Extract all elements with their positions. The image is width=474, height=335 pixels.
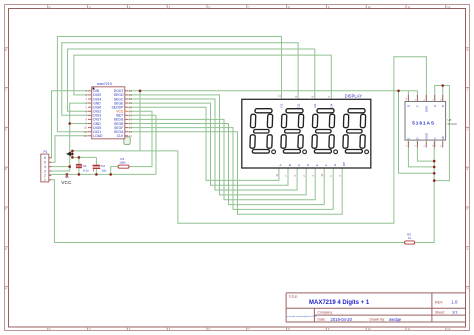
svg-text:8: 8 xyxy=(311,96,315,98)
svg-text:5: 5 xyxy=(329,175,333,177)
svg-text:1/1: 1/1 xyxy=(452,310,458,315)
svg-text:Drawn By:: Drawn By: xyxy=(370,318,386,322)
svg-text:D: D xyxy=(467,127,469,131)
wire net VCC flag stub xyxy=(71,151,73,158)
wire branch to 5161AS column xyxy=(399,91,435,174)
svg-text:F: F xyxy=(5,207,7,211)
svg-text:E: E xyxy=(5,167,7,171)
digit glyph 4 xyxy=(343,109,369,154)
svg-text:MAX7219 4 Digits + 1: MAX7219 4 Digits + 1 xyxy=(309,300,370,306)
connector P1 xyxy=(41,150,52,182)
svg-text:REV:: REV: xyxy=(435,300,443,304)
svg-text:8: 8 xyxy=(86,118,88,122)
svg-text:10: 10 xyxy=(320,173,324,177)
wire 5161AS pin F stub wire xyxy=(416,91,418,102)
svg-text:CLK: CLK xyxy=(117,134,124,138)
svg-text:11: 11 xyxy=(275,173,279,176)
svg-text:G: G xyxy=(407,105,411,107)
svg-text:C: C xyxy=(5,88,7,92)
wire net SEG to 5161AS G/F xyxy=(128,90,417,92)
svg-text:D3: D3 xyxy=(313,103,317,107)
display U8 5161AS xyxy=(405,95,457,148)
svg-text:G: G xyxy=(467,247,469,251)
wire net GND branch to U1 GND pin9 xyxy=(70,123,88,125)
svg-text:13: 13 xyxy=(129,134,132,138)
wire C1 top lead xyxy=(78,157,80,164)
svg-text:2019-04-20: 2019-04-20 xyxy=(331,317,353,322)
svg-text:100k: 100k xyxy=(119,161,126,165)
wire net DIG1 to display D1 xyxy=(57,37,281,132)
svg-text:LOAD: LOAD xyxy=(93,134,103,138)
wire vertical from SEG net down xyxy=(139,91,141,151)
svg-text:wedge: wedge xyxy=(389,317,402,322)
svg-text:DISPLAY: DISPLAY xyxy=(345,94,363,99)
wire net VCC horizontal xyxy=(72,150,177,152)
svg-text:C2: C2 xyxy=(101,164,105,168)
wire 5161AS pin G stub wire xyxy=(407,91,409,102)
svg-text:2: 2 xyxy=(44,174,46,178)
svg-text:D: D xyxy=(5,127,7,131)
VCC net flag arrow xyxy=(66,151,73,156)
svg-text:C1: C1 xyxy=(83,164,87,168)
wire net GND (P1.1 to R2) xyxy=(49,180,405,243)
svg-text:D1: D1 xyxy=(280,103,284,107)
wire 5161AS pin D branch xyxy=(417,141,434,161)
wire net DIG3 to display D2 xyxy=(62,43,298,116)
svg-text:GND: GND xyxy=(425,133,429,139)
svg-text:F: F xyxy=(324,164,328,166)
svg-text:P1: P1 xyxy=(44,150,48,154)
svg-text:E: E xyxy=(467,167,469,171)
svg-text:9: 9 xyxy=(294,96,298,98)
digit glyph 1 xyxy=(250,109,276,154)
wire net SEGB (U1 to display) xyxy=(128,124,324,205)
svg-text:12: 12 xyxy=(277,94,281,98)
svg-text:D4: D4 xyxy=(330,103,334,107)
svg-text:A: A xyxy=(279,164,283,166)
svg-text:1k: 1k xyxy=(408,236,412,240)
svg-text:D2: D2 xyxy=(296,103,300,107)
svg-text:4: 4 xyxy=(44,165,46,169)
svg-text:GND: GND xyxy=(425,106,429,112)
svg-text:10: 10 xyxy=(84,126,87,130)
svg-text:1.0: 1.0 xyxy=(451,300,458,305)
wire net ISET from U1 pin18 to rail xyxy=(128,115,156,174)
wire net VCC to 5161AS common xyxy=(178,57,427,224)
wire net SEGG (U1 to display) xyxy=(128,119,315,199)
wire net VCC top rail xyxy=(72,156,96,158)
svg-text:B: B xyxy=(441,105,445,107)
svg-text:5161AS: 5161AS xyxy=(412,121,435,127)
svg-text:E: E xyxy=(315,164,319,166)
IC U1 max7219 xyxy=(84,82,132,139)
svg-text:F: F xyxy=(416,105,420,107)
wire C2 top lead xyxy=(95,157,97,165)
wire R1 left lead xyxy=(111,167,118,175)
svg-text:1: 1 xyxy=(311,175,315,177)
resistor R1 100k xyxy=(118,157,129,168)
svg-text:easyeda.com/wedge/max7219: easyeda.com/wedge/max7219 xyxy=(287,316,317,318)
capacitor C1 0.1u xyxy=(76,164,89,172)
svg-text:B: B xyxy=(5,48,7,52)
wire net GND vertical (U1 GND pin4 to P1.3) xyxy=(49,103,88,171)
svg-text:6: 6 xyxy=(44,156,46,160)
svg-text:3: 3 xyxy=(86,97,88,101)
svg-text:DP: DP xyxy=(342,162,346,166)
svg-text:7: 7 xyxy=(284,175,288,177)
svg-text:DP: DP xyxy=(441,135,445,139)
wire net DIN (P1.6 to U1 DIN) xyxy=(49,91,88,158)
wire C1 bottom lead xyxy=(78,167,80,174)
capacitor C2 10u xyxy=(93,164,107,172)
wire 5161AS pin E branch xyxy=(408,141,434,167)
wire 5161AS A-B loop xyxy=(434,86,449,181)
wire C2 bottom lead xyxy=(95,168,97,174)
wire net VCC bottom rail xyxy=(49,173,156,175)
svg-text:10u: 10u xyxy=(101,169,106,173)
svg-text:A: A xyxy=(433,105,437,107)
wire net DIG2 to display D3 xyxy=(68,49,315,111)
svg-text:max7219: max7219 xyxy=(97,82,112,86)
digit glyph 3 xyxy=(312,109,338,154)
wire net DIG0 to display D4 xyxy=(74,55,331,99)
svg-text:Sheet:: Sheet: xyxy=(435,310,445,314)
svg-text:C: C xyxy=(433,137,437,139)
svg-text:D: D xyxy=(416,137,420,139)
svg-text:G: G xyxy=(5,247,7,251)
wire net SEGC (U1 to display) xyxy=(128,99,297,190)
svg-text:5161AS: 5161AS xyxy=(448,122,458,126)
svg-text:0.1u: 0.1u xyxy=(83,169,89,173)
svg-text:Company:: Company: xyxy=(318,310,334,314)
net port flag on CLK pin xyxy=(124,137,130,145)
wire net SEGDP (U1 to display) xyxy=(128,107,279,180)
svg-text:B: B xyxy=(288,164,292,166)
wire 5161AS pin B riser xyxy=(442,86,444,102)
svg-text:U8: U8 xyxy=(448,118,452,122)
display DS1 4-digit 7-segment xyxy=(242,94,371,177)
svg-text:E: E xyxy=(407,138,411,140)
junction dots xyxy=(66,84,444,182)
svg-text:TITLE:: TITLE: xyxy=(289,295,299,299)
svg-text:H: H xyxy=(467,287,469,291)
VCC power flag xyxy=(61,174,72,185)
svg-text:F: F xyxy=(467,207,469,211)
wire net VCC from U1 pin19 to R1 xyxy=(128,111,152,166)
wire net SEGA (U1 to display) xyxy=(128,132,342,215)
resistor R2 1k xyxy=(405,233,415,244)
svg-text:VCC: VCC xyxy=(61,180,72,186)
svg-text:5: 5 xyxy=(44,161,46,165)
wire net GND branch to P1.4 xyxy=(49,166,70,168)
svg-text:3: 3 xyxy=(338,175,342,177)
wire net SEGD (U1 to display) xyxy=(128,95,306,195)
wire net LOAD (P1.5 to U1 LOAD) xyxy=(49,136,88,162)
wire net SEGE (U1 to display) xyxy=(128,103,288,185)
digit glyph 2 xyxy=(281,109,307,154)
svg-text:2: 2 xyxy=(302,175,306,177)
svg-text:B: B xyxy=(467,48,469,52)
svg-text:4: 4 xyxy=(293,175,297,177)
wire net SEGF (U1 to display) xyxy=(128,128,333,210)
svg-text:C: C xyxy=(467,88,469,92)
wire R2 right lead to 5161AS xyxy=(415,141,435,242)
svg-text:H: H xyxy=(5,287,7,291)
svg-text:1: 1 xyxy=(44,178,46,182)
svg-text:6: 6 xyxy=(327,96,331,98)
svg-text:Date:: Date: xyxy=(318,318,326,322)
svg-text:3: 3 xyxy=(44,169,46,173)
svg-text:5: 5 xyxy=(86,105,88,109)
